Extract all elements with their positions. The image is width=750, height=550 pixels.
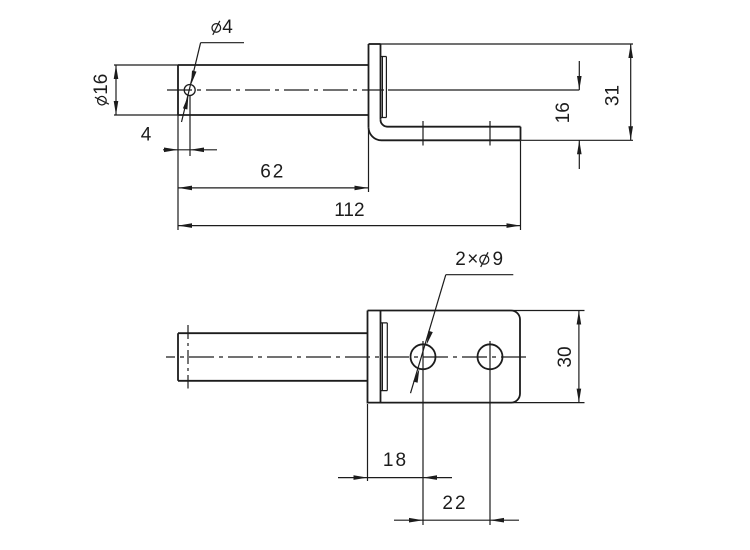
bracket bend line (plan view) (380, 311, 382, 403)
hole left axis / extension line (422, 341, 424, 525)
leader 2xd9 (411, 275, 446, 394)
dimension 62: extension line at bracket face (368, 130, 370, 192)
dimension 30: extension lines (513, 310, 585, 312)
extension line pin left edge (177, 115, 179, 230)
svg-text:4: 4 (222, 17, 233, 38)
svg-text:16: 16 (91, 74, 112, 95)
svg-text:9: 9 (493, 249, 504, 270)
dimension 112: extension line at flange end (520, 141, 522, 230)
pin body outline (side view) (178, 65, 369, 115)
svg-text:4: 4 (141, 124, 152, 145)
dimension d16: dimension line (115, 65, 117, 115)
svg-text:31: 31 (603, 85, 624, 106)
svg-text:22: 22 (442, 493, 467, 514)
extension line from leg top to 31-dim (381, 43, 634, 45)
weld boss rectangle (side view) (381, 57, 387, 118)
bracket flange right end (520, 127, 522, 141)
svg-text:18: 18 (383, 450, 408, 471)
extension line from flange bottom to 31-dim (521, 139, 634, 141)
cross-hole circle (d4) (184, 85, 195, 96)
flange hole center tick (left hole) (422, 121, 424, 146)
bracket flange bottom edge (382, 139, 521, 141)
hole right axis / extension line (489, 341, 491, 525)
dimension 18: dimension line and arrows (338, 477, 452, 479)
base plate outline (368, 311, 521, 403)
dimension d16: extension lines (114, 64, 178, 66)
weld boss rectangle (plan view) (381, 323, 388, 391)
pin centerline (plan view) (166, 356, 527, 358)
dimension 31: dimension line (630, 44, 632, 140)
svg-text:112: 112 (334, 200, 364, 221)
bracket leg right face (380, 44, 382, 120)
dimension d4: label (212, 24, 221, 33)
pin centerline (side view) (167, 89, 384, 91)
svg-text:2×: 2× (455, 249, 480, 270)
dimension 112: dimension line (178, 225, 521, 227)
flange hole center tick (right hole) (489, 121, 491, 146)
svg-text:62: 62 (260, 161, 285, 182)
hole right d9 (478, 344, 503, 369)
extension line pin axis for 16-dim (388, 89, 579, 91)
dimension d4: leader line (182, 43, 201, 122)
bracket outer bend radius (369, 127, 382, 140)
pin body outline (plan view) (178, 333, 368, 381)
svg-text:16: 16 (553, 102, 574, 123)
bracket flange top edge (388, 126, 521, 128)
dimension 4: dimension line and arrows (163, 149, 217, 151)
cross-hole axis centerline (plan view) (187, 325, 189, 389)
dimension 16: dimension line and arrows (578, 61, 580, 90)
dimension d16: label (91, 74, 112, 105)
svg-text:30: 30 (555, 346, 576, 367)
dimension 18: extension line at plate edge (367, 404, 369, 481)
dimension 62: dimension line (178, 187, 369, 189)
dimension 22: dimension line and arrows (394, 519, 519, 521)
dimension 4: extension line at hole axis (189, 96, 191, 156)
bracket inner bend radius (381, 120, 388, 127)
bracket leg top edge (369, 43, 381, 45)
hole left d9 (411, 344, 436, 369)
dimension 30: dimension line (578, 311, 580, 403)
bracket leg left face (368, 44, 370, 127)
